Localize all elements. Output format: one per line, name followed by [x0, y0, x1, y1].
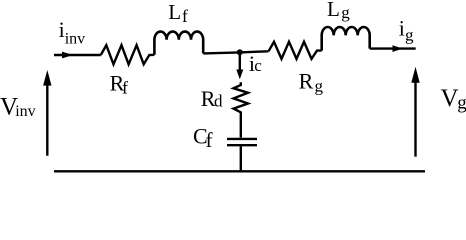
svg-text:f: f — [182, 6, 188, 26]
wire: Cf to bottom rail — [240, 146, 242, 171]
wire: Vg voltage arrow shaft — [414, 80, 416, 157]
svg-text:d: d — [214, 91, 223, 110]
inductor Lf — [154, 32, 203, 55]
svg-text:g: g — [457, 93, 466, 114]
capacitor Cf top plate — [227, 138, 257, 140]
wire: grid-side output lead — [370, 47, 416, 49]
svg-text:g: g — [405, 25, 414, 44]
svg-text:g: g — [341, 3, 350, 22]
arrowhead V_g — [411, 67, 419, 83]
wire: Vinv voltage arrow shaft — [46, 83, 48, 156]
arrowhead i_inv — [62, 52, 73, 59]
arrowhead V_inv — [43, 70, 51, 86]
svg-text:inv: inv — [65, 31, 85, 48]
capacitor Cf bottom plate — [227, 144, 257, 146]
svg-text:f: f — [122, 77, 128, 97]
svg-text:c: c — [254, 56, 262, 75]
wire: bottom rail — [54, 170, 425, 172]
svg-text:f: f — [206, 128, 213, 152]
node: junction dot — [237, 49, 243, 55]
wire: ic branch from node — [239, 52, 241, 70]
svg-text:R: R — [299, 69, 314, 94]
svg-text:i: i — [399, 15, 405, 40]
svg-text:L: L — [168, 0, 181, 24]
svg-text:inv: inv — [15, 103, 35, 120]
resistor Rd — [234, 82, 249, 138]
arrowhead i_g — [393, 45, 403, 52]
svg-text:V: V — [441, 85, 459, 112]
svg-text:L: L — [327, 0, 340, 21]
svg-text:g: g — [315, 77, 324, 96]
wire: Lf to node to Rg — [203, 51, 268, 53]
resistor Rf — [101, 45, 155, 64]
arrowhead i_c — [236, 70, 243, 80]
inductor Lg — [322, 27, 370, 51]
wire: inverter-side input lead — [54, 54, 101, 56]
resistor Rg — [269, 42, 322, 59]
